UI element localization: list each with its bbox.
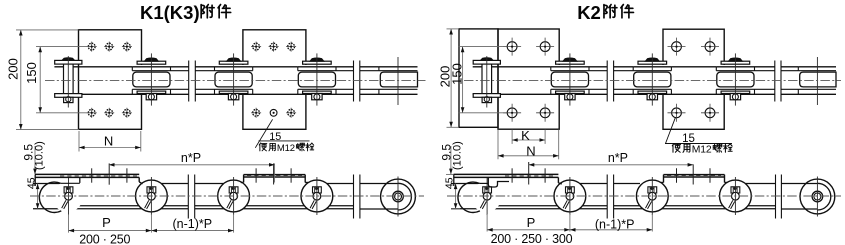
dimension n*P (left) — [109, 164, 275, 166]
dimension N (right) — [497, 130, 499, 160]
cotter pin at W1 (elevation, left) — [64, 187, 73, 193]
pin link P1 (top view, right) — [482, 64, 492, 94]
roller R1 (top view, right) — [551, 65, 589, 94]
chain break lines (elevation left, second) — [354, 176, 360, 217]
dimension 150 (right) — [462, 47, 464, 113]
title K2 attachment (right diagram) — [577, 2, 633, 23]
roller wheel W1 (elevation, right) — [471, 182, 501, 212]
svg-text:N: N — [104, 134, 113, 149]
chain break lines (elevation right, second) — [776, 176, 782, 217]
roller wheel W3 (elevation, left) — [218, 180, 250, 212]
dimension P (left) — [68, 214, 70, 233]
attachment plate 1 (top view, right diagram) — [498, 29, 559, 129]
roller wheel W4 (elevation, right) — [720, 180, 752, 212]
chain break lines (elevation right, first) — [607, 176, 613, 217]
dimension 200 (right) — [450, 29, 452, 127]
title K1(K3) attachment (left diagram) — [140, 2, 231, 23]
svg-text:K1(K3): K1(K3) — [140, 2, 200, 23]
dimension (n-1)*P (right) — [570, 229, 652, 231]
bolt holes row 1, plate 1 (left) — [88, 43, 95, 50]
roller wheel W4 (elevation, left) — [301, 180, 333, 212]
bolt centerlines span 2 (elevation, right) — [676, 168, 678, 182]
end roller R4 (top view, right) — [798, 65, 836, 94]
svg-text:45: 45 — [444, 177, 456, 189]
bolt centerlines span 2 (elevation, left) — [255, 168, 257, 182]
chain link plate edges (top view, right) — [473, 66, 836, 68]
chain break lines (elevation left, first) — [188, 176, 194, 217]
attachment plate 1 bent leg flap (top view, right diagram) — [459, 29, 498, 127]
svg-text:(10.0): (10.0) — [451, 141, 463, 170]
svg-text:N: N — [526, 143, 535, 158]
svg-text:150: 150 — [24, 62, 39, 84]
chain link plates (elevation, left) — [33, 183, 60, 185]
dimension P (right) — [486, 214, 488, 232]
svg-text:(n-1)*P: (n-1)*P — [173, 217, 213, 231]
chain centerline (elevation, right) — [447, 195, 841, 197]
pin link P1 (top view, left) — [64, 64, 74, 94]
label 使用M12螺栓 (left) — [259, 143, 275, 151]
cotter pin at W4 (elevation, left) — [313, 187, 322, 193]
bolt holes row 2, plate 1 (left) — [88, 109, 95, 116]
cotter pin at W1 (elevation, right) — [483, 187, 492, 193]
svg-text:M12: M12 — [277, 143, 295, 154]
roller R2 (top view, left) — [215, 65, 253, 94]
svg-text:200 · 250: 200 · 250 — [79, 233, 130, 245]
bent attachment profile span 2 (elevation, right) — [664, 174, 725, 176]
chain centerline (top view, left) — [45, 79, 426, 81]
bolt holes plate 1 (right) — [507, 42, 517, 52]
roller R2 (top view, right) — [633, 65, 671, 94]
bent attachment profile span 1 (elevation, left) — [35, 173, 139, 175]
cotter pin at W3 (elevation, right) — [648, 187, 657, 193]
dimension K (right) — [511, 130, 513, 144]
svg-text:45: 45 — [26, 177, 38, 189]
bent attachment profile span 1 (elevation, right) — [454, 173, 559, 175]
attachment plate 1 (top view, left diagram) — [79, 30, 142, 130]
dimension (n-1)*P (left) — [151, 230, 233, 232]
label 使用M12螺栓 (right) — [672, 144, 690, 153]
dimension 9.5 (10.0) (left) — [34, 146, 36, 174]
svg-text:15: 15 — [269, 131, 281, 143]
inner link plate edges (top view, right) — [589, 70, 633, 72]
cotter pin at W2 (elevation, left) — [147, 187, 156, 193]
dimension 200 (left) — [20, 30, 22, 130]
inner link plate edges (top view, left) — [171, 70, 215, 72]
attachment plate 2 (top view, left diagram) — [243, 30, 306, 130]
leader 15 / M12 bolt note (left) — [255, 119, 272, 148]
svg-text:M12: M12 — [692, 145, 712, 156]
bolt centerlines span 1 (elevation, right) — [511, 168, 513, 182]
chain break lines (top view left, first) — [189, 62, 196, 101]
roller wheel W3 (elevation, right) — [636, 180, 668, 212]
svg-text:P: P — [527, 215, 536, 230]
dimension 45 (left) — [37, 184, 39, 209]
bent attachment profile span 2 (elevation, left) — [244, 174, 306, 176]
svg-text:15: 15 — [682, 133, 695, 145]
svg-text:n*P: n*P — [181, 151, 201, 165]
svg-text:200 · 250 · 300: 200 · 250 · 300 — [491, 232, 573, 245]
roller wheel W1 (elevation, left) — [52, 182, 82, 212]
dimension 9.5 (10.0) (right) — [450, 146, 452, 174]
svg-text:P: P — [102, 215, 111, 230]
chain link plates (elevation, right) — [451, 183, 480, 185]
attachment plate 2 (top view, right diagram) — [663, 29, 724, 129]
bolt holes plate 2 (right) — [672, 42, 682, 52]
roller wheel W2 (elevation, left) — [136, 180, 168, 212]
chain break lines (top view right, first) — [607, 62, 613, 101]
roller R1 (top view, left) — [132, 65, 170, 94]
dimension 45 (right) — [455, 184, 457, 209]
chain centerline (elevation, left) — [30, 195, 424, 197]
roller R3 (top view, right) — [716, 65, 754, 94]
svg-text:(10.0): (10.0) — [33, 141, 45, 170]
svg-text:(n-1)*P: (n-1)*P — [595, 217, 635, 231]
bolt holes row 1, plate 2 (left) — [253, 43, 260, 50]
svg-text:K2: K2 — [577, 2, 601, 23]
cotter pin at W2 (elevation, right) — [566, 187, 575, 193]
leader 15 / M12 bolt note (right) — [666, 118, 676, 144]
chain link plate edges (top view, left) — [54, 66, 417, 68]
bolt centerlines span 1 (elevation, left) — [91, 168, 93, 182]
svg-text:K: K — [521, 128, 530, 143]
cotter pin at W3 (elevation, left) — [229, 187, 238, 193]
svg-text:200: 200 — [6, 58, 21, 80]
roller wheel W2 (elevation, right) — [554, 180, 586, 212]
chain break lines (top view left, second) — [354, 62, 360, 101]
cotter pin at W4 (elevation, right) — [731, 187, 740, 193]
bolt holes row 2, plate 2 (left) — [253, 109, 260, 116]
dimension N (left) — [78, 131, 80, 152]
svg-text:n*P: n*P — [608, 151, 628, 165]
end link circle (elevation, left) — [381, 179, 416, 214]
roller R3 (top view, left) — [298, 65, 336, 94]
end roller R4 (top view, left) — [379, 65, 418, 94]
end link circle (elevation, right) — [800, 179, 835, 214]
chain break lines (top view right, second) — [775, 62, 781, 101]
dimension n*P (right) — [529, 164, 694, 166]
svg-text:150: 150 — [450, 63, 465, 85]
chain centerline (top view, right) — [464, 79, 841, 81]
dimension 150 (left) — [39, 47, 41, 113]
